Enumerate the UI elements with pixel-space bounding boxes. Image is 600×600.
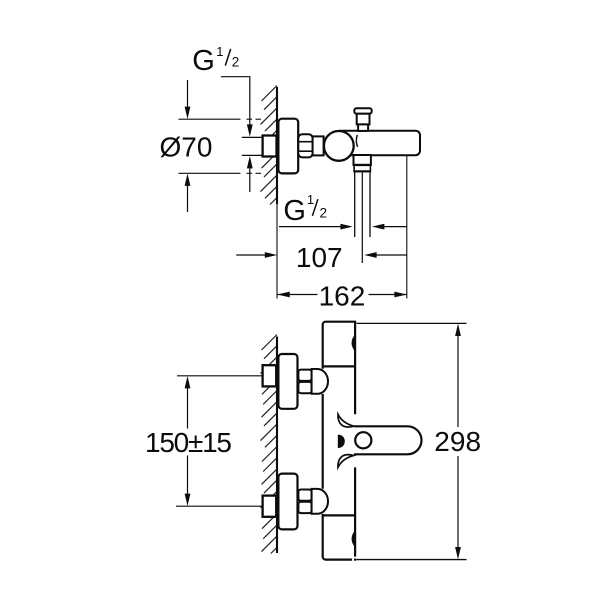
150 dimension line lower arrow — [185, 456, 191, 507]
connection nut (top view) — [298, 134, 312, 157]
black half-round mark on body — [338, 435, 345, 448]
O70 dimension extension line bottom — [179, 172, 262, 174]
O70 upper dimension line and arrow — [185, 80, 191, 119]
shower outlet block (top view) — [354, 155, 371, 165]
lower in-wall union square — [263, 496, 277, 517]
svg-text:1: 1 — [216, 44, 223, 59]
svg-text:107: 107 — [296, 242, 343, 273]
298 dimension line lower arrow — [455, 456, 461, 559]
svg-text:1: 1 — [307, 192, 314, 207]
diverter knob neck — [358, 124, 368, 130]
G1/2 outlet dimension right arrow and line — [372, 224, 407, 230]
162 dimension right line and arrow — [369, 292, 407, 298]
lower escutcheon (side view) — [278, 474, 297, 530]
thermostat body (bottom view) — [323, 322, 357, 560]
outlet right edge line — [369, 172, 371, 238]
label G 1/2 (outlet) — [283, 192, 327, 227]
arc mark on body right of circle — [356, 135, 357, 147]
wall surface line (bottom view) — [276, 337, 278, 554]
upper crescent mark on body edge — [353, 336, 355, 349]
150 dimension extension line upper — [177, 375, 263, 377]
escutcheon (top view, O70 flange) — [278, 119, 298, 174]
107 dimension right arrow and line — [364, 252, 407, 258]
spout (side view) — [354, 426, 422, 454]
upper escutcheon (side view) — [278, 354, 297, 409]
lower check-valve cap — [312, 489, 328, 514]
G1/2 outlet dimension left line and arrow — [279, 224, 353, 230]
G1/2 thread leader line top — [242, 136, 263, 138]
upper check-valve cap — [312, 369, 328, 394]
svg-text:G: G — [192, 45, 215, 77]
298 dimension extension line bottom — [356, 559, 466, 561]
G1/2 thread leader line bottom — [242, 154, 263, 156]
svg-text:150±15: 150±15 — [145, 427, 232, 458]
G1/2 lower overshoot line — [249, 166, 251, 192]
G1/2 arrow down — [247, 124, 253, 136]
body lower seam — [323, 514, 355, 516]
svg-text:Ø70: Ø70 — [160, 132, 213, 163]
upper in-wall union square — [263, 365, 277, 386]
O70 dimension extension line top — [179, 118, 262, 120]
spout upper leaf flare — [338, 414, 354, 427]
spout diverter circle — [355, 432, 371, 448]
G1/2 arrow up — [247, 156, 253, 168]
svg-text:162: 162 — [319, 281, 366, 312]
wall surface line (top view) — [276, 87, 278, 204]
diverter knob body — [357, 114, 370, 125]
upper connection nut (two washers) — [298, 370, 311, 394]
diverter knob cap (top view) — [354, 108, 371, 114]
spacer cylinder (top view) — [313, 136, 324, 155]
label G 1/2 (top) — [192, 44, 239, 77]
mixer body bar (top view) — [340, 131, 420, 156]
107 dimension left line and arrow — [236, 252, 277, 258]
valve cartridge circle (top view) — [324, 131, 354, 161]
in-wall union square (top view) — [263, 136, 277, 157]
lower crescent mark on body edge — [353, 532, 355, 545]
298 dimension extension line top — [357, 322, 467, 324]
lower connection nut (two washers) — [298, 490, 311, 514]
O70 lower dimension line and arrow — [185, 174, 191, 213]
spout lower leaf flare — [338, 455, 354, 468]
svg-text:298: 298 — [434, 426, 481, 457]
body upper seam — [323, 365, 355, 367]
wall hatch strokes (top view) — [261, 86, 278, 205]
leader from G 1/2 label to union — [221, 77, 250, 129]
wall surface extension line down to 162 dimension — [276, 204, 278, 299]
298 dimension line upper arrow — [455, 324, 461, 427]
outlet ring nut (top view) — [354, 165, 371, 172]
150 dimension extension line lower — [176, 505, 263, 507]
svg-text:2: 2 — [320, 205, 328, 220]
162 dimension left arrow and line — [277, 292, 317, 298]
svg-text:G: G — [283, 195, 306, 227]
right extension line (162 dimension) — [406, 156, 408, 299]
outlet left edge line — [354, 172, 356, 238]
svg-text:2: 2 — [232, 55, 240, 70]
150 dimension line upper arrow — [185, 376, 191, 429]
wall hatch strokes (bottom view) — [261, 335, 278, 554]
outlet axis line — [361, 172, 363, 264]
